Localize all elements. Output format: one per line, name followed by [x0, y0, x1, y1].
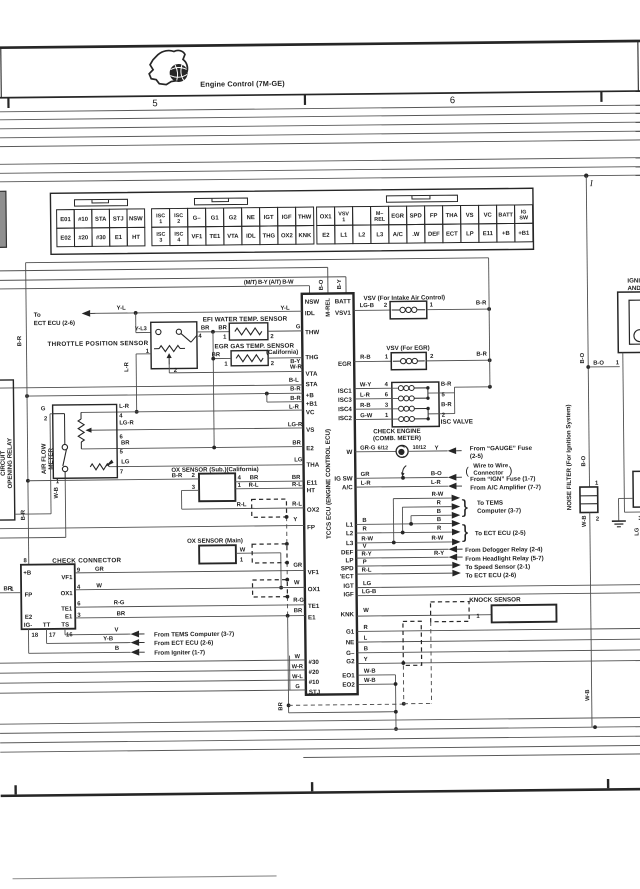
svg-text:R-L: R-L	[292, 482, 302, 488]
ISC coil2 out	[414, 397, 427, 399]
connector pin cell C7	[260, 207, 278, 226]
svg-text:ISC1: ISC1	[338, 388, 352, 395]
node B-R to OX sub sensor	[26, 479, 30, 483]
svg-text:LG-B: LG-B	[362, 589, 376, 595]
column scale line	[0, 91, 640, 98]
connector pin cell B4	[110, 228, 128, 247]
arrow from igniter	[131, 649, 140, 656]
igniter sub box	[633, 471, 640, 507]
ISC coil row 6	[355, 397, 398, 399]
wire L-R A/C	[355, 485, 447, 488]
svg-text:B-R: B-R	[441, 402, 452, 408]
svg-text:BR: BR	[292, 475, 301, 481]
svg-text:BR: BR	[212, 352, 221, 358]
svg-text:G2: G2	[229, 215, 238, 221]
wire W check engine	[355, 450, 396, 452]
wire W-L #10	[0, 680, 306, 683]
svg-text:B-R: B-R	[290, 396, 301, 402]
svg-text:B-O: B-O	[580, 352, 586, 363]
svg-text:METER: METER	[48, 447, 55, 469]
svg-text:ISC4: ISC4	[338, 406, 352, 413]
svg-text:SPD: SPD	[410, 213, 422, 219]
AFM potentiometer	[78, 419, 84, 442]
svg-text:R-B: R-B	[360, 355, 371, 361]
wire TT pin17	[45, 629, 47, 643]
wire W-B ground link	[289, 712, 396, 713]
svg-text:From ECT ECU (2-6): From ECT ECU (2-6)	[154, 640, 213, 648]
svg-text:GR: GR	[361, 472, 371, 478]
svg-text:B-R: B-R	[290, 386, 301, 392]
svg-text:1: 1	[238, 483, 242, 489]
wire LG-B VSV1	[354, 309, 390, 311]
wire B-R +B1	[267, 401, 303, 403]
svg-text:Y: Y	[435, 446, 439, 452]
wire R L2	[356, 532, 452, 533]
svg-text:IGNITION COIL: IGNITION COIL	[627, 277, 640, 284]
gray page-edge tab	[0, 191, 6, 247]
bus wire 2	[0, 113, 640, 120]
right page edge tick	[637, 41, 640, 91]
svg-text:'ECT: 'ECT	[340, 573, 354, 580]
svg-text:BR: BR	[250, 475, 259, 481]
svg-text:THA: THA	[306, 462, 319, 469]
svg-text:4: 4	[119, 413, 123, 419]
ISC coil3 out	[415, 407, 428, 409]
connector pin cell E1	[317, 207, 335, 226]
svg-text:SW: SW	[519, 215, 529, 221]
connector pin cell F12	[515, 223, 533, 242]
svg-text:B-O: B-O	[431, 471, 442, 477]
svg-text:}: }	[462, 497, 469, 518]
svg-text:W-Y: W-Y	[360, 382, 371, 388]
wire ISC pin2	[428, 413, 455, 415]
node B-R to +B	[25, 394, 29, 398]
wire TS pin16	[64, 629, 66, 635]
top heavy rule	[0, 40, 640, 49]
wire R-W riser L3	[392, 499, 394, 543]
arrow to ECT ECU 2-6	[452, 570, 461, 577]
svg-text:1: 1	[224, 362, 228, 368]
connector pin cell D4	[206, 226, 224, 245]
wire G STJ	[0, 690, 306, 693]
connector pin cell F10	[479, 224, 497, 243]
svg-text:B-O: B-O	[319, 279, 325, 290]
dashed shield bottom link	[404, 702, 432, 704]
connector pin cell D1	[152, 227, 170, 246]
wire W OX1	[75, 587, 305, 589]
svg-text:EGR: EGR	[391, 214, 405, 220]
node E1 to BR ground riser	[286, 614, 290, 618]
svg-text:#30: #30	[308, 659, 319, 666]
svg-text:VSV1: VSV1	[335, 310, 351, 317]
wire R-B VSV EGR	[354, 360, 391, 362]
svg-text:M-REL: M-REL	[326, 298, 332, 317]
svg-text:E02: E02	[60, 236, 71, 242]
svg-text:(COMB. METER): (COMB. METER)	[373, 435, 421, 443]
wire BR to check connector FP	[0, 592, 21, 594]
svg-text:BR: BR	[278, 701, 284, 710]
svg-text:#20: #20	[78, 235, 89, 241]
svg-text:E1: E1	[308, 614, 316, 621]
svg-text:B-R: B-R	[172, 473, 183, 479]
svg-text:VC: VC	[484, 213, 493, 219]
svg-text:VF1: VF1	[61, 575, 73, 581]
scale tick left	[7, 98, 9, 108]
node EO ground link	[394, 710, 398, 714]
svg-text:P: P	[363, 560, 367, 566]
svg-text:(M/T) B-Y (A/T) B-W: (M/T) B-Y (A/T) B-W	[244, 280, 294, 287]
connector pin cell F3	[353, 225, 371, 244]
wire LG THA	[109, 465, 303, 467]
wire R-G TE1	[75, 605, 305, 607]
svg-text:E2: E2	[25, 615, 33, 621]
svg-text:GR: GR	[95, 567, 105, 573]
svg-text:B: B	[437, 509, 441, 515]
wire B-R VSV1 to feed	[427, 308, 489, 311]
connector pin cell A4	[109, 209, 127, 228]
svg-text:BR: BR	[218, 325, 227, 331]
svg-text:W: W	[96, 583, 102, 589]
svg-text:B-O: B-O	[581, 455, 587, 466]
bus wire 6	[0, 158, 640, 165]
svg-text:EFI WATER TEMP. SENSOR: EFI WATER TEMP. SENSOR	[203, 316, 288, 324]
svg-text:From Defogger Relay (2-4): From Defogger Relay (2-4)	[465, 546, 542, 554]
svg-text:IGT: IGT	[264, 215, 274, 221]
svg-text:VS: VS	[306, 427, 314, 434]
svg-text:L-R: L-R	[119, 404, 130, 410]
svg-text:L-R: L-R	[124, 361, 130, 372]
node B-R ISC	[488, 385, 492, 389]
connector pin cell A1	[57, 210, 75, 229]
svg-text:2: 2	[270, 334, 274, 340]
arrow to speed sensor	[452, 562, 461, 569]
wire W #30	[0, 660, 306, 663]
connector pin cell C2	[170, 208, 188, 227]
wire L-R to throttle pin 1	[136, 353, 151, 355]
connector keying notch 1	[74, 199, 127, 206]
svg-text:G1: G1	[211, 215, 220, 221]
connector pin cell A5	[127, 209, 145, 228]
svg-text:#20: #20	[309, 669, 320, 676]
wire B-R ISC to feed	[454, 386, 489, 388]
wire bottom bus 3	[0, 736, 640, 743]
bus wire 5	[0, 140, 640, 147]
svg-text:R-L: R-L	[292, 502, 302, 508]
wire BR E2	[81, 447, 303, 449]
svg-text:FP: FP	[430, 213, 438, 219]
svg-text:W: W	[294, 580, 300, 586]
svg-text:GR: GR	[293, 563, 303, 569]
svg-text:17: 17	[49, 633, 56, 639]
connector pin cell E11	[497, 205, 515, 224]
svg-text:B-R: B-R	[17, 335, 23, 346]
connector pin cell E3	[353, 206, 371, 225]
svg-text:B-L: B-L	[289, 378, 299, 384]
svg-text:OX1: OX1	[308, 586, 321, 593]
node EO to ground bus	[394, 727, 398, 731]
wire bottom bus 1	[0, 717, 640, 724]
svg-text:G1: G1	[346, 629, 355, 636]
svg-text:FP: FP	[307, 524, 315, 531]
svg-text:VF1: VF1	[191, 234, 203, 240]
connector pin cell F1	[317, 225, 335, 244]
wire B L1	[356, 523, 452, 524]
wire-to-wire connector dashed box 1	[252, 499, 287, 517]
wire IDL Y-L left segment	[96, 312, 136, 314]
svg-text:From Igniter (1-7): From Igniter (1-7)	[154, 649, 205, 657]
wire B-R feed riser	[489, 258, 490, 387]
wire ISC B-R join	[453, 387, 455, 413]
wire BR riser from E1	[288, 616, 289, 713]
svg-text:L-R: L-R	[360, 393, 371, 399]
svg-text:BATT: BATT	[335, 298, 351, 305]
svg-text:To: To	[34, 312, 41, 319]
wire-to-wire connector dashed box 3	[252, 580, 287, 597]
svg-text:18: 18	[31, 633, 38, 639]
svg-text:W-L: W-L	[292, 674, 303, 680]
svg-text:5: 5	[120, 449, 124, 455]
svg-text:R: R	[363, 625, 368, 631]
svg-text:B-O: B-O	[593, 361, 604, 367]
connector pin cell E2	[335, 207, 353, 226]
connector pin cell D3	[188, 227, 206, 246]
bus wire 8	[0, 175, 640, 182]
wire bottom bus 2 W-B ground	[0, 727, 640, 734]
connector pin cell D6	[242, 226, 260, 245]
svg-text:1: 1	[223, 335, 227, 341]
connector pin cell B2	[74, 228, 92, 247]
svg-text:AND IGNITER: AND IGNITER	[627, 285, 640, 292]
svg-text:1: 1	[342, 217, 345, 223]
svg-text:G–: G–	[346, 650, 355, 657]
svg-text:+B: +B	[306, 392, 315, 399]
wire B-O ignition feed riser	[586, 176, 589, 487]
svg-text:IGT: IGT	[343, 583, 354, 590]
node sensor ground to E2	[212, 446, 216, 450]
svg-text:.W: .W	[412, 232, 420, 238]
wire R-L ECT	[356, 573, 452, 574]
wire B-Y bus	[0, 277, 346, 281]
wire GR VF1	[75, 570, 305, 572]
svg-text:W: W	[363, 608, 369, 614]
svg-text:THW: THW	[298, 215, 312, 221]
svg-text:B: B	[115, 646, 119, 652]
svg-text:VTA: VTA	[305, 371, 318, 378]
svg-text:W-R: W-R	[290, 364, 302, 370]
svg-text:E1: E1	[115, 235, 123, 241]
wire P SPD	[356, 565, 452, 566]
connector pin cell C6	[242, 208, 260, 227]
wire Y G2	[357, 660, 640, 663]
svg-text:Y-L: Y-L	[280, 306, 290, 312]
svg-text:(2-5): (2-5)	[470, 453, 483, 460]
connector pin cell E8	[443, 206, 461, 225]
svg-text:6: 6	[385, 392, 389, 398]
arrow from defogger relay	[449, 546, 458, 553]
svg-text:L-R: L-R	[431, 480, 442, 486]
circuit opening relay box	[0, 380, 15, 520]
wire B-R OX sub pin2	[28, 479, 199, 481]
svg-text:G: G	[41, 406, 46, 412]
svg-text:Y: Y	[293, 517, 297, 523]
arrow from TEMS computer	[130, 631, 139, 638]
svg-text:KNK: KNK	[298, 233, 312, 239]
svg-text:1: 1	[430, 302, 434, 308]
wire VTA drop from pin 2	[168, 365, 170, 373]
svg-text:IG SW: IG SW	[334, 475, 352, 482]
svg-text:2: 2	[177, 219, 180, 225]
wire ISC pin5	[428, 392, 455, 394]
wire BR throttle pin4 to sensor ground node	[197, 331, 229, 333]
svg-text:B-R: B-R	[21, 509, 27, 520]
svg-text:THA: THA	[446, 213, 459, 219]
svg-text:W-B: W-B	[364, 678, 376, 684]
ISC coil row 1	[355, 418, 398, 420]
svg-text:L-R: L-R	[361, 481, 372, 487]
wire sensor ground riser BR	[213, 332, 214, 448]
svg-text:IDL: IDL	[305, 310, 315, 317]
svg-text:ISC2: ISC2	[338, 415, 352, 422]
ISC coil row 4	[354, 387, 397, 389]
svg-text:Engine Control (7M-GE): Engine Control (7M-GE)	[200, 79, 285, 89]
svg-text:LG: LG	[363, 581, 372, 587]
wire L-R riser	[135, 354, 138, 412]
wire LG-R VS	[87, 428, 303, 430]
svg-text:TE1: TE1	[209, 234, 221, 240]
svg-text:STJ: STJ	[309, 689, 321, 696]
dashed shield link 2	[286, 563, 288, 580]
svg-text:OX2: OX2	[307, 507, 320, 514]
wire B riser L1	[410, 516, 412, 524]
connector pin cell B5	[127, 227, 145, 246]
svg-text:V: V	[115, 628, 119, 634]
connector pin cell A3	[92, 209, 110, 228]
connector pin cell A2	[74, 209, 92, 228]
svg-text:BATT: BATT	[498, 212, 513, 218]
svg-text:B-R: B-R	[476, 300, 487, 306]
svg-text:EO2: EO2	[342, 682, 355, 689]
svg-text:ECT ECU (2-6): ECT ECU (2-6)	[34, 320, 75, 327]
svg-text:From “GAUGE” Fuse: From “GAUGE” Fuse	[470, 445, 533, 453]
svg-text:R: R	[437, 500, 442, 506]
svg-text:TS: TS	[61, 622, 69, 628]
svg-text:+B: +B	[23, 571, 32, 577]
arrow from A/C amplifier	[448, 483, 457, 490]
wire B-R VSV EGR to feed	[426, 359, 489, 362]
svg-text:LG: LG	[634, 527, 640, 536]
wire NSW B-W bus	[0, 286, 309, 289]
svg-text:VF1: VF1	[308, 569, 320, 576]
svg-text:LG: LG	[294, 457, 303, 463]
connector pin cell F9	[461, 224, 479, 243]
svg-text:LG-R: LG-R	[119, 420, 134, 426]
svg-text:THROTTLE POSITION SENSOR: THROTTLE POSITION SENSOR	[47, 340, 148, 348]
wire G relay to AFM	[15, 513, 51, 515]
distributor dashed shield box	[403, 621, 422, 665]
svg-text:2: 2	[192, 473, 196, 479]
svg-text:OX SENSOR (Main): OX SENSOR (Main)	[187, 537, 243, 545]
svg-text:I: I	[589, 178, 594, 188]
ECU: TCCS ECU (ENGINE CONTROL ECU)	[302, 293, 358, 695]
svg-text:From A/C Amplifier (7-7): From A/C Amplifier (7-7)	[470, 484, 541, 492]
node B-O to ignition coil	[586, 365, 590, 369]
svg-text:ISC3: ISC3	[338, 397, 352, 404]
wire BR OX sub pin4 to E11	[235, 480, 303, 483]
svg-text:R-L: R-L	[362, 568, 372, 574]
connector pin cell E7	[425, 206, 443, 225]
wire G pin 2 inside	[53, 413, 65, 415]
left page edge tick	[0, 47, 2, 97]
node sensor ground top	[211, 330, 215, 334]
svg-text:BR: BR	[117, 611, 126, 617]
arrow to ECT ECU (2-6)	[82, 310, 91, 317]
arrow from headlight relay	[449, 554, 458, 561]
svg-text:IGF: IGF	[343, 591, 354, 598]
svg-text:DEF: DEF	[428, 232, 440, 238]
connector pin cell C8	[278, 207, 296, 226]
wire W-B ground drop	[394, 675, 397, 729]
wire B-O bus	[0, 267, 328, 270]
svg-text:L1: L1	[346, 522, 354, 529]
wire B-R feed bus	[26, 258, 489, 263]
node BR shield	[287, 703, 291, 707]
svg-text:B: B	[362, 518, 366, 524]
svg-text:THG: THG	[305, 354, 318, 361]
svg-text:VSV (For EGR): VSV (For EGR)	[386, 345, 429, 352]
svg-text:L3: L3	[376, 232, 384, 238]
svg-text:8: 8	[24, 558, 28, 564]
svg-text:From TEMS Computer (3-7): From TEMS Computer (3-7)	[154, 631, 234, 639]
svg-text:1: 1	[240, 557, 244, 563]
svg-text:Y: Y	[364, 657, 368, 663]
svg-text:NOISE FILTER (For Ignition Sys: NOISE FILTER (For Ignition System)	[565, 404, 573, 510]
svg-text:4: 4	[238, 475, 242, 481]
bus wire 3	[0, 122, 640, 129]
AFM temp resistor	[90, 464, 109, 470]
connector pin cell C1	[152, 209, 170, 228]
svg-text:16: 16	[66, 632, 73, 638]
wire igniter tach lead	[623, 353, 625, 513]
node VC branch	[135, 410, 139, 414]
svg-text:V: V	[363, 544, 367, 550]
connector pin cell E12	[515, 205, 533, 224]
svg-text:R-B: R-B	[360, 403, 371, 409]
bottom scale tick left	[14, 785, 16, 794]
svg-text:B: B	[364, 646, 368, 652]
svg-text:NE: NE	[247, 215, 255, 221]
svg-text:ECT: ECT	[446, 231, 458, 237]
svg-text:1: 1	[595, 481, 599, 487]
bottom scale tick right	[607, 779, 609, 788]
svg-text:STJ: STJ	[113, 216, 124, 222]
svg-text:R-Y: R-Y	[434, 551, 444, 557]
wire W OX main	[236, 552, 281, 554]
connector pin cell C4	[206, 208, 224, 227]
ISC coil4 out	[415, 418, 428, 420]
svg-text:A/C: A/C	[393, 232, 404, 238]
wire W-B to page left	[0, 536, 66, 539]
arrow from IGN fuse	[448, 474, 457, 481]
svg-text:From “IGN” Fuse (1-7): From “IGN” Fuse (1-7)	[470, 475, 535, 483]
svg-text:10/12: 10/12	[413, 445, 427, 451]
wire L-R VC	[81, 410, 303, 412]
node EO1 EO2 join	[394, 682, 398, 686]
node +B1 branch	[265, 392, 269, 396]
svg-text:HT: HT	[307, 487, 316, 494]
svg-text:LP: LP	[346, 557, 354, 564]
wire +B1 drop	[266, 394, 268, 402]
svg-text:Y-B: Y-B	[103, 636, 113, 642]
